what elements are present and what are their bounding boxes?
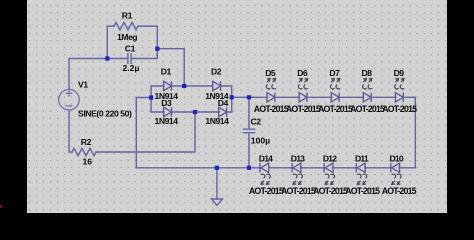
LED D7	[331, 93, 339, 102]
svg-text:1N914: 1N914	[205, 116, 229, 126]
svg-text:D5: D5	[265, 68, 276, 78]
bridge top row wire	[151, 85, 232, 87]
svg-text:C2: C2	[251, 117, 262, 127]
wire C1 left lead	[107, 58, 128, 60]
svg-text:AOT-2015: AOT-2015	[345, 186, 380, 196]
LED D14 arrows	[261, 174, 271, 184]
LED D13	[292, 163, 301, 172]
svg-text:AOT-2015: AOT-2015	[350, 104, 385, 114]
ground lead	[216, 168, 218, 199]
bridge right rail	[231, 86, 233, 112]
resistor R1	[114, 22, 138, 29]
svg-text:1N914: 1N914	[155, 116, 179, 126]
svg-text:D9: D9	[394, 68, 405, 78]
svg-text:D14: D14	[259, 153, 273, 163]
diode D4	[219, 107, 227, 116]
LED D6	[299, 93, 307, 102]
ground symbol	[211, 199, 222, 205]
svg-text:D3: D3	[161, 98, 172, 108]
svg-text:R2: R2	[81, 137, 92, 147]
diode D3	[164, 107, 172, 116]
svg-text:D11: D11	[355, 153, 369, 163]
svg-text:AOT-2015: AOT-2015	[249, 186, 284, 196]
voltage source V1	[59, 89, 80, 110]
resistor R2	[72, 148, 96, 155]
node B junction	[155, 47, 159, 51]
bridge top mid junction	[182, 84, 186, 88]
bridge bottom row wire	[151, 111, 232, 113]
svg-text:D13: D13	[291, 153, 305, 163]
svg-text:V1: V1	[78, 80, 88, 90]
wire R1 left leg	[107, 26, 114, 58]
svg-text:D1: D1	[161, 66, 172, 76]
top LED row wires	[277, 96, 415, 98]
wire V1 top to node A	[69, 59, 107, 90]
svg-text:AOT-2015: AOT-2015	[286, 104, 321, 114]
LED D5 arrows	[266, 79, 276, 89]
schematic gray canvas	[27, 0, 447, 213]
bottom bus wire	[136, 167, 415, 169]
LED D8 arrows	[363, 79, 373, 89]
svg-text:D2: D2	[211, 66, 222, 76]
svg-text:SINE(0 220 50): SINE(0 220 50)	[78, 109, 132, 119]
svg-text:16: 16	[83, 156, 93, 166]
svg-text:AOT-2015: AOT-2015	[281, 186, 316, 196]
wire R1 right leg	[138, 26, 157, 49]
C2 bottom junction	[247, 166, 251, 170]
svg-text:AOT-2015: AOT-2015	[382, 104, 417, 114]
bridge right mid junction	[230, 95, 234, 99]
svg-text:AOT-2015: AOT-2015	[254, 104, 289, 114]
LED D12	[324, 163, 333, 172]
bridge left rail	[150, 86, 152, 112]
capacitor C1	[128, 54, 131, 64]
LED D14	[260, 163, 269, 172]
LED D11	[356, 163, 365, 172]
svg-text:D4: D4	[218, 98, 229, 108]
svg-text:C1: C1	[125, 44, 136, 54]
LED D5	[267, 93, 275, 102]
svg-text:D12: D12	[323, 153, 337, 163]
diode D1	[164, 81, 172, 90]
red mark bottom-left	[0, 205, 2, 207]
LED D9	[395, 93, 403, 102]
svg-text:D6: D6	[297, 68, 308, 78]
ground junction	[215, 166, 219, 170]
bridge left mid junction	[149, 95, 153, 99]
svg-text:AOT-2015: AOT-2015	[318, 104, 353, 114]
LED D9 arrows	[395, 79, 405, 89]
LED D13 arrows	[293, 174, 303, 184]
wire V1 bottom	[69, 110, 72, 152]
diode D2	[213, 81, 221, 90]
svg-text:1Meg: 1Meg	[117, 32, 137, 42]
junction dots	[105, 47, 251, 170]
node A junction	[105, 56, 109, 60]
wire node B to bridge top mid	[157, 49, 184, 86]
svg-text:D10: D10	[390, 153, 404, 163]
svg-text:AOT-2015: AOT-2015	[313, 186, 348, 196]
svg-text:100µ: 100µ	[251, 136, 270, 146]
diodes (bridge, 1N914)	[164, 81, 404, 172]
LED D12 arrows	[325, 174, 335, 184]
LED D8	[363, 93, 371, 102]
svg-text:D8: D8	[362, 68, 373, 78]
capacitor C2	[244, 129, 255, 133]
svg-text:R1: R1	[122, 10, 133, 20]
svg-text:AOT-2015: AOT-2015	[382, 186, 417, 196]
right side vertical	[414, 97, 416, 168]
C2 leads	[248, 97, 250, 168]
LED D7 arrows	[330, 79, 340, 89]
svg-text:2.2µ: 2.2µ	[123, 63, 140, 73]
wire R2 to bridge bottom mid	[96, 112, 195, 152]
bridge left mid stub down to bottom bus	[136, 98, 151, 168]
LED D10 arrows	[392, 174, 402, 184]
wire C1 right lead up to node B	[131, 49, 157, 59]
LED D10	[391, 163, 400, 172]
C2 top junction	[247, 95, 251, 99]
bridge bottom mid junction	[193, 110, 197, 114]
bridge right mid stub	[232, 96, 267, 98]
LED D11 arrows	[357, 174, 367, 184]
svg-text:D7: D7	[329, 68, 340, 78]
LED D6 arrows	[298, 79, 308, 89]
